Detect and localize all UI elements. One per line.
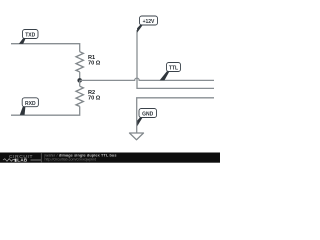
wire +12V net: vertical drop and horizontal rail	[137, 30, 214, 88]
flag RXD	[20, 98, 39, 115]
flag GND	[137, 109, 156, 127]
wire GND net: horizontal rail and vertical drop to ground	[137, 98, 214, 133]
node junction dot	[77, 78, 82, 83]
wire bus TTL with hop over +12V line	[80, 78, 214, 80]
footer bar	[0, 153, 220, 163]
flag +12V	[137, 16, 157, 33]
svg-text:+12V: +12V	[143, 19, 155, 25]
ground	[130, 133, 144, 140]
resistor R2	[76, 80, 101, 106]
svg-text:RXD: RXD	[25, 101, 36, 107]
svg-text:GND: GND	[142, 112, 154, 118]
wire RXD horizontal	[11, 106, 80, 115]
svg-text:http://circuitlab.com/c/xxxqwp: http://circuitlab.com/c/xxxqwpkrd	[45, 158, 97, 162]
resistor R1	[76, 52, 101, 81]
svg-text:TXD: TXD	[25, 33, 35, 39]
flag TTL	[160, 63, 181, 81]
wire TXD horizontal	[11, 44, 80, 52]
svg-text:LAB: LAB	[17, 158, 28, 163]
flag TXD	[19, 30, 38, 44]
svg-text:70 Ω: 70 Ω	[88, 61, 101, 67]
svg-text:TTL: TTL	[169, 66, 178, 72]
svg-text:70 Ω: 70 Ω	[88, 96, 101, 102]
